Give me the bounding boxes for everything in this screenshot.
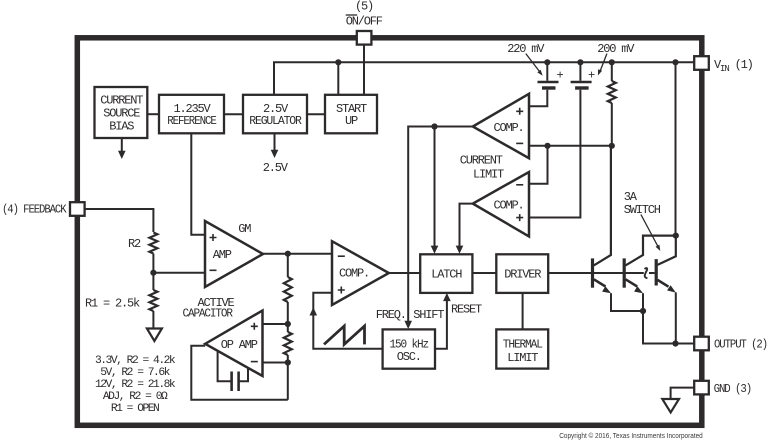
resistor R2 <box>128 233 157 254</box>
comparator CL COMP.2 (current limit lower) <box>473 172 529 236</box>
node rail to start up <box>335 59 341 65</box>
wire ON/OFF pin to START UP <box>363 44 365 95</box>
svg-text:VIN (1): VIN (1) <box>714 58 753 74</box>
resistor R1 <box>85 290 157 311</box>
capacitor in op-amp loop <box>232 372 239 392</box>
wire CL comparator 1 output to FREQ SHIFT of oscillator <box>408 127 473 322</box>
node op-amp plus <box>285 321 291 327</box>
svg-text:FREQ.: FREQ. <box>376 308 406 322</box>
arrow FREQ SHIFT into oscillator <box>376 308 445 329</box>
svg-text:COMP.: COMP. <box>493 198 523 212</box>
svg-text:OP AMP: OP AMP <box>221 338 258 352</box>
resistor feedback upper <box>284 277 292 302</box>
svg-text:COMP.: COMP. <box>493 121 523 135</box>
wire CL comparator 1 + input to 220mV source <box>529 90 547 106</box>
arrow latch input from CL comp 1 <box>431 246 439 254</box>
pin 4 FEEDBACK <box>2 202 85 216</box>
svg-text:CAPACITOR: CAPACITOR <box>182 307 232 321</box>
node output <box>672 340 678 346</box>
svg-text:AMP: AMP <box>213 248 232 262</box>
svg-text:OSC.: OSC. <box>397 350 421 364</box>
pin 2 OUTPUT <box>694 337 767 352</box>
label 200 mV with leader arrow <box>597 42 635 75</box>
node op-amp minus <box>285 359 291 365</box>
transistor Q2 <box>624 236 676 294</box>
arrow 2.5V output below regulator <box>263 133 289 175</box>
wire main COMP output to LATCH <box>389 272 420 274</box>
wire R1 bottom to ground <box>152 311 154 329</box>
svg-text:5V, R2 = 7.6k: 5V, R2 = 7.6k <box>100 367 170 379</box>
node CL comp1 output <box>431 123 437 129</box>
wire OP AMP + input <box>263 323 288 325</box>
svg-text:DRIVER: DRIVER <box>504 268 541 282</box>
wire REFERENCE to GM AMP + input <box>191 133 205 235</box>
svg-text:+: + <box>588 69 595 83</box>
box THERMAL LIMIT <box>496 329 548 368</box>
box START UP <box>325 95 377 134</box>
arrow latch input from CL comp 2 <box>456 246 464 254</box>
wire 220mV source top to rail <box>546 62 548 81</box>
svg-text:3.3V, R2 = 4.2k: 3.3V, R2 = 4.2k <box>95 355 176 367</box>
svg-text:GND (3): GND (3) <box>714 382 752 396</box>
wire oscillator sawtooth output to main COMP + input <box>313 293 383 349</box>
wire GND pin to ground symbol <box>671 388 695 399</box>
label ACTIVE CAPACITOR <box>182 296 234 321</box>
box DRIVER <box>496 254 548 293</box>
op-amp OP AMP (active capacitor) <box>205 311 262 377</box>
op-amp GM AMP <box>205 221 263 287</box>
wire 200mV source top to rail <box>579 62 581 81</box>
svg-text:Copyright © 2016, Texas Instru: Copyright © 2016, Texas Instruments Inco… <box>559 431 703 440</box>
svg-text:COMP.: COMP. <box>339 266 369 280</box>
transistor Q1 <box>593 146 612 293</box>
wire OP AMP output loop to bottom net <box>191 346 287 400</box>
transistor Q3 <box>656 237 676 293</box>
box 150 kHz OSC. <box>383 329 435 368</box>
battery 200 mV source <box>571 69 595 89</box>
wire output node to OUTPUT pin <box>676 343 695 345</box>
node divider <box>150 270 156 276</box>
arrow RESET into latch <box>443 293 482 317</box>
svg-text:BIAS: BIAS <box>109 120 134 134</box>
wire CL comparator 1 node down to LATCH input <box>434 127 436 247</box>
wire GM output node down through feedback resistors <box>287 254 289 400</box>
arrow sawtooth into COMP + <box>310 307 318 315</box>
svg-text:SHIFT: SHIFT <box>413 308 444 322</box>
node GM output <box>285 251 291 257</box>
svg-text:SWITCH: SWITCH <box>624 203 661 217</box>
wire active capacitor loop left <box>218 352 231 382</box>
svg-text:GM: GM <box>238 222 251 236</box>
svg-text:CURRENT: CURRENT <box>460 153 503 167</box>
battery 220 mV source <box>538 69 564 89</box>
box 1.235V REFERENCE <box>159 95 224 134</box>
label 220 mV with leader arrow <box>507 42 545 75</box>
wire CL comparator 2 output to LATCH input <box>460 204 473 247</box>
svg-text:ON/OFF: ON/OFF <box>346 15 383 29</box>
ground at GND pin <box>662 399 679 412</box>
frame IC boundary <box>77 38 702 426</box>
box 2.5V REGULATOR <box>243 95 307 134</box>
wire DRIVER output to transistor bases <box>548 272 654 274</box>
wire OP AMP - input <box>263 362 288 364</box>
wire Q1 emitter to Q2 emitter node <box>611 293 643 311</box>
label 3A SWITCH with leader arrow <box>624 190 661 251</box>
wire Q2 emitter node to output node <box>643 293 676 343</box>
svg-text:R2: R2 <box>128 237 141 251</box>
wire 200mV source to CL comparator 2 + input <box>529 90 580 218</box>
svg-text:200 mV: 200 mV <box>597 42 635 56</box>
node collector <box>673 233 679 239</box>
resistor current sense <box>608 81 616 103</box>
squiggle on base line <box>645 268 648 278</box>
ground below R1 <box>147 329 162 342</box>
wire VIN rail from regulator drop to VIN pin <box>274 62 694 95</box>
pin 3 GND <box>694 381 751 396</box>
node rail sense resistor <box>609 59 615 65</box>
wire rail to sense resistor top <box>611 62 613 81</box>
svg-text:LIMIT: LIMIT <box>507 351 538 365</box>
svg-text:12V, R2 = 21.8k: 12V, R2 = 21.8k <box>95 379 176 391</box>
wire GM AMP output to main COMP - input <box>263 253 332 255</box>
wire VIN rail drop to switch collector node <box>675 62 677 235</box>
wire oscillator RESET to LATCH <box>435 301 447 349</box>
wire REFERENCE to REGULATOR <box>224 113 243 115</box>
node rail 200mV <box>577 59 583 65</box>
resistor feedback lower <box>284 332 292 355</box>
comparator CL COMP.1 (current limit upper) <box>473 94 529 158</box>
wire FEEDBACK pin to R2 top <box>85 209 154 232</box>
node rail 220mV <box>544 59 550 65</box>
label CURRENT LIMIT <box>460 153 504 181</box>
pin 5 ON/OFF <box>346 0 383 45</box>
svg-text:OUTPUT (2): OUTPUT (2) <box>714 338 767 352</box>
wire CURRENT SOURCE BIAS to REFERENCE <box>147 113 159 115</box>
wire rail drop to START UP <box>337 62 339 95</box>
pin 1 VIN <box>694 56 752 74</box>
svg-text:R1 = 2.5k: R1 = 2.5k <box>85 296 140 310</box>
wire active capacitor loop right <box>240 367 248 381</box>
wire R2 bottom to R1 top <box>152 254 154 291</box>
svg-text:REFERENCE: REFERENCE <box>167 114 216 128</box>
svg-text:+: + <box>557 69 564 83</box>
wire CL comparator 2 - input to sense node <box>529 146 548 184</box>
wire divider node to GM AMP - input <box>153 272 205 274</box>
label voltage options <box>95 355 176 415</box>
wire LATCH to DRIVER <box>472 272 496 274</box>
svg-text:UP: UP <box>345 114 358 128</box>
svg-text:R1 = OPEN: R1 = OPEN <box>111 403 159 415</box>
arrow below current source bias <box>118 138 126 159</box>
wire CL comparator 1 - input sense line <box>529 145 612 147</box>
svg-text:LATCH: LATCH <box>431 268 462 282</box>
box LATCH <box>420 254 472 293</box>
svg-text:CURRENT: CURRENT <box>100 94 143 108</box>
svg-text:LIMIT: LIMIT <box>473 167 504 181</box>
wire REGULATOR to START UP <box>307 113 325 115</box>
svg-text:RESET: RESET <box>451 303 482 317</box>
box U1 CURRENT SOURCE BIAS <box>95 87 148 138</box>
svg-text:REGULATOR: REGULATOR <box>249 114 301 128</box>
node emitters <box>640 308 646 314</box>
svg-text:2.5V: 2.5V <box>263 161 289 175</box>
node sense left <box>544 143 550 149</box>
wire DRIVER to THERMAL LIMIT <box>522 293 524 330</box>
svg-text:(5): (5) <box>355 0 373 13</box>
svg-text:THERMAL: THERMAL <box>503 337 543 351</box>
wire sense resistor bottom to sense node <box>611 103 613 146</box>
svg-text:ADJ, R2 = 0Ω: ADJ, R2 = 0Ω <box>103 391 168 403</box>
op-amp main COMP. <box>332 241 389 305</box>
wire Q3 emitter to output node <box>675 292 677 343</box>
svg-text:SOURCE: SOURCE <box>103 107 140 121</box>
svg-text:(4) FEEDBACK: (4) FEEDBACK <box>2 203 67 217</box>
node sense right <box>609 143 615 149</box>
sawtooth waveform symbol <box>324 326 365 344</box>
node rail switch <box>672 59 678 65</box>
